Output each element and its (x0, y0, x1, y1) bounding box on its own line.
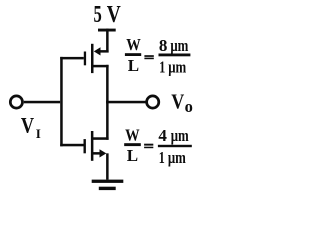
node output junction wire (106, 101, 146, 104)
ground bar 2 (99, 187, 116, 190)
pmos Q_P source lead (99, 50, 109, 53)
svg-text:μm: μm (168, 57, 186, 76)
svg-text:o: o (185, 97, 193, 116)
nmos Q_N source arrow (100, 149, 107, 157)
nmos W/L label: fraction bar (124, 143, 141, 146)
nmos W/L label: equals sign (144, 144, 153, 146)
wire output node to NMOS drain (106, 101, 109, 140)
ground bar 1 (92, 180, 124, 183)
wire PMOS drain to output node (106, 65, 109, 104)
svg-text:W: W (126, 35, 141, 54)
svg-text:5: 5 (94, 1, 102, 28)
nmos Q_N source lead (93, 152, 100, 155)
input terminal circle (10, 96, 22, 108)
pmos Q_P channel (91, 44, 94, 73)
nmos Q_N gate lead (60, 144, 83, 147)
input gate bus wire (60, 57, 63, 146)
pmos Q_P drain lead (92, 65, 109, 68)
svg-text:V: V (171, 90, 184, 114)
svg-text:L: L (127, 146, 138, 165)
svg-text:L: L (128, 56, 139, 75)
svg-text:4: 4 (158, 126, 167, 145)
pmos Q_P source arrow (94, 47, 101, 55)
svg-text:8: 8 (159, 36, 168, 55)
nmos Q_N gate bar (84, 139, 86, 153)
wire VDD bar to PMOS source (106, 29, 109, 53)
pmos W/L label: fraction bar (125, 53, 141, 56)
output terminal circle (147, 96, 159, 108)
pmos Q_P gate lead (60, 57, 84, 60)
input wire (24, 101, 60, 104)
wire NMOS source to ground (106, 153, 109, 179)
svg-text:μm: μm (170, 36, 188, 55)
nmos Q_N drain lead (92, 137, 109, 140)
pmos W/L label: equals sign (144, 55, 153, 57)
pmos Q_P gate bar (84, 52, 86, 66)
svg-text:μm: μm (168, 148, 186, 167)
nmos Q_N channel (91, 131, 94, 161)
nmos W/L label: right fraction bar (158, 145, 192, 147)
svg-text:1: 1 (159, 148, 165, 167)
svg-text:μm: μm (171, 126, 189, 145)
svg-text:W: W (125, 125, 140, 144)
svg-text:V: V (21, 113, 34, 138)
VDD supply bar (98, 29, 116, 32)
pmos W/L label: right fraction bar (159, 54, 191, 57)
svg-text:1: 1 (159, 58, 165, 77)
svg-text:V: V (107, 1, 121, 28)
svg-text:I: I (36, 126, 41, 141)
